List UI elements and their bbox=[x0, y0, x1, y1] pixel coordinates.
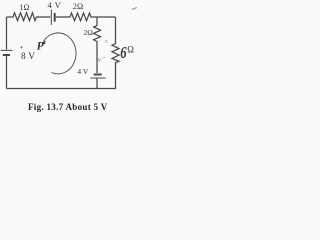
svg-text:4 V: 4 V bbox=[77, 67, 89, 76]
svg-text:P: P bbox=[37, 41, 45, 53]
svg-text:2Ω: 2Ω bbox=[84, 28, 94, 37]
svg-text:4 V: 4 V bbox=[48, 0, 62, 10]
svg-text:1Ω: 1Ω bbox=[20, 3, 30, 12]
svg-text:6: 6 bbox=[120, 45, 127, 63]
svg-text:v: v bbox=[98, 57, 101, 63]
svg-text:n: n bbox=[105, 38, 108, 45]
svg-text:Ω: Ω bbox=[127, 45, 134, 55]
svg-text:8 V: 8 V bbox=[21, 52, 35, 62]
svg-text:2Ω: 2Ω bbox=[73, 2, 83, 11]
